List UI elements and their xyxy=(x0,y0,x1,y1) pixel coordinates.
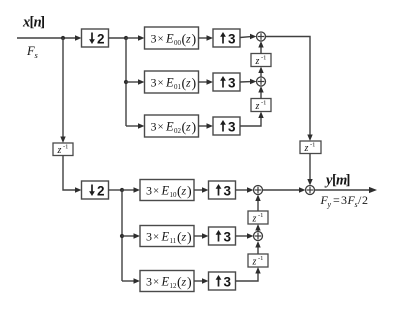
svg-text:3: 3 xyxy=(151,32,157,46)
wire S2 to delay Z1 xyxy=(260,72,262,78)
svg-text:02: 02 xyxy=(174,127,182,135)
expander U6 (up-arrow 3) xyxy=(209,272,236,290)
svg-text:-1: -1 xyxy=(261,55,266,62)
svg-text:-1: -1 xyxy=(261,100,266,107)
wire branch to filter E12 xyxy=(122,280,135,282)
delay Z4 z^-1 xyxy=(248,254,268,268)
svg-text:-1: -1 xyxy=(258,255,263,262)
filter E10 3xE10(z) xyxy=(140,180,194,201)
svg-text:3: 3 xyxy=(228,32,236,47)
delay Z3 z^-1 xyxy=(248,211,268,225)
wire D1 to junction B xyxy=(109,37,127,39)
adder S5 xyxy=(306,186,315,195)
svg-text:]: ] xyxy=(40,15,45,31)
svg-text:×: × xyxy=(158,77,164,89)
node y[m] output label xyxy=(324,173,350,189)
expander U4 (up-arrow 3) xyxy=(209,181,236,199)
node junction B xyxy=(124,36,128,40)
svg-text:3: 3 xyxy=(224,184,232,199)
svg-text:2: 2 xyxy=(97,32,105,47)
node Fy label xyxy=(320,193,369,209)
wire E01 to expander U2 xyxy=(199,81,209,83)
svg-text:): ) xyxy=(187,276,192,291)
svg-text:2: 2 xyxy=(97,184,105,199)
wire output y[m] xyxy=(315,189,371,191)
svg-text:11: 11 xyxy=(170,237,177,245)
wire S1 right and down to delay ZR xyxy=(266,37,311,137)
svg-text:z: z xyxy=(181,230,187,244)
svg-text:3: 3 xyxy=(224,275,232,290)
wire junction A down to delay ZL xyxy=(62,38,64,138)
svg-text:z: z xyxy=(255,101,260,112)
svg-text:3: 3 xyxy=(151,76,157,90)
wire Z2 to adder S2 xyxy=(260,91,262,99)
svg-text:): ) xyxy=(192,121,197,136)
decimator D2 (down-arrow 2) xyxy=(82,181,109,199)
wire U4 to adder S3 xyxy=(236,189,249,191)
node junction C xyxy=(120,188,124,192)
node junction A xyxy=(61,36,65,40)
wire U2 to adder S2 xyxy=(240,81,251,83)
svg-text:): ) xyxy=(187,231,192,246)
svg-text:z: z xyxy=(252,214,257,225)
wire branch to filter E01 xyxy=(126,81,140,83)
svg-text:s: s xyxy=(35,50,39,60)
svg-text:3: 3 xyxy=(146,275,152,289)
wire branch to filter E02 xyxy=(126,125,140,127)
wire E00 to expander U1 xyxy=(199,37,209,39)
delay ZR z^-1 xyxy=(300,141,321,154)
svg-text:]: ] xyxy=(346,173,351,189)
svg-text:z: z xyxy=(185,32,191,46)
filter E11 3xE11(z) xyxy=(140,226,194,247)
svg-text:E: E xyxy=(165,120,174,134)
svg-text:z: z xyxy=(252,257,257,268)
svg-text:z: z xyxy=(57,145,62,156)
svg-text:3: 3 xyxy=(341,193,347,207)
svg-text:-1: -1 xyxy=(63,144,68,151)
filter E02 3xE02(z) xyxy=(145,115,199,137)
svg-text:E: E xyxy=(161,184,170,198)
wire E10 to expander U4 xyxy=(194,189,204,191)
svg-text:12: 12 xyxy=(170,282,178,290)
expander U2 (up-arrow 3) xyxy=(213,73,240,91)
wire U3 to delay Z2 xyxy=(240,117,261,127)
svg-text:): ) xyxy=(192,33,197,48)
svg-text:E: E xyxy=(161,275,170,289)
delay ZL z^-1 xyxy=(53,143,73,156)
wire ZR to final adder S5 xyxy=(309,154,311,182)
expander U5 (up-arrow 3) xyxy=(209,227,236,245)
wire S3 to final adder S5 xyxy=(263,189,301,191)
node x[n] input label xyxy=(22,15,45,31)
svg-text:×: × xyxy=(153,185,159,197)
svg-text:-1: -1 xyxy=(258,212,263,219)
delay Z2 z^-1 xyxy=(251,99,271,113)
svg-text:z: z xyxy=(181,275,187,289)
wire ZL down and right to decimator D2 xyxy=(63,156,76,191)
wire E02 to expander U3 xyxy=(199,125,209,127)
svg-text:3: 3 xyxy=(146,230,152,244)
expander U3 (up-arrow 3) xyxy=(213,117,240,135)
wire branch to filter E11 xyxy=(122,235,135,237)
decimator D1 (down-arrow 2) xyxy=(82,29,109,47)
wire S4 to delay Z3 xyxy=(257,229,259,232)
filter E00 3xE00(z) xyxy=(145,27,199,49)
delay Z1 z^-1 xyxy=(251,54,271,68)
svg-text:E: E xyxy=(161,230,170,244)
adder S4 xyxy=(254,232,263,241)
svg-text:z: z xyxy=(304,143,309,154)
svg-text:×: × xyxy=(153,231,159,243)
svg-text:z: z xyxy=(185,76,191,90)
svg-text:3: 3 xyxy=(228,120,236,135)
svg-text:z: z xyxy=(185,120,191,134)
wire D2 to junction C xyxy=(109,189,123,191)
svg-text:E: E xyxy=(165,32,174,46)
svg-text:2: 2 xyxy=(362,193,368,207)
adder S3 xyxy=(254,186,263,195)
svg-text:): ) xyxy=(187,185,192,200)
wire Z4 to adder S4 xyxy=(257,246,259,254)
svg-text:3: 3 xyxy=(224,230,232,245)
wire junction C to filter E10 xyxy=(122,189,135,191)
svg-text:×: × xyxy=(158,121,164,133)
svg-text:×: × xyxy=(153,276,159,288)
svg-text:00: 00 xyxy=(174,39,182,47)
wire input x[n] to decimator D1 xyxy=(17,37,76,39)
svg-text:z: z xyxy=(181,184,187,198)
wire Z3 to adder S3 xyxy=(257,200,259,212)
adder S1 xyxy=(257,32,266,41)
adder S2 xyxy=(257,77,266,86)
expander U1 (up-arrow 3) xyxy=(213,29,240,47)
wire E12 to expander U6 xyxy=(194,280,204,282)
wire E11 to expander U5 xyxy=(194,235,204,237)
svg-text:): ) xyxy=(192,77,197,92)
wire U6 to delay Z4 xyxy=(236,272,259,281)
svg-text:×: × xyxy=(158,33,164,45)
svg-text:10: 10 xyxy=(170,191,178,199)
svg-text:3: 3 xyxy=(151,120,157,134)
svg-text:z: z xyxy=(255,56,260,67)
filter E01 3xE01(z) xyxy=(145,71,199,93)
wire junction B vertical bus xyxy=(125,38,127,126)
svg-text:3: 3 xyxy=(228,76,236,91)
node Fs label xyxy=(26,44,39,60)
svg-text:E: E xyxy=(165,76,174,90)
wire Z1 to adder S1 xyxy=(260,46,262,54)
node junction C2 xyxy=(120,234,124,238)
filter E12 3xE12(z) xyxy=(140,271,194,292)
wire U5 to adder S4 xyxy=(236,235,249,237)
svg-text:3: 3 xyxy=(146,184,152,198)
wire junction C vertical bus xyxy=(121,190,123,281)
svg-text:01: 01 xyxy=(174,83,182,91)
wire U1 to adder S1 xyxy=(240,36,251,39)
svg-text:y: y xyxy=(327,200,332,209)
node junction B2 xyxy=(124,80,128,84)
svg-text:=: = xyxy=(333,193,340,207)
wire junction B to filter E00 xyxy=(126,37,140,39)
svg-text:-1: -1 xyxy=(310,142,315,149)
